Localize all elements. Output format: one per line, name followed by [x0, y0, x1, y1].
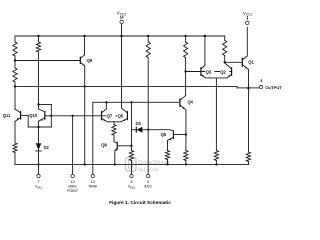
svg-text:Figure 1. Circuit Schematic: Figure 1. Circuit Schematic: [109, 200, 171, 206]
svg-text:Q6: Q6: [118, 114, 124, 119]
svg-text:Q7: Q7: [107, 114, 113, 119]
svg-text:Q11: Q11: [3, 113, 11, 118]
svg-text:8: 8: [131, 180, 133, 184]
svg-text:DataSheet: DataSheet: [138, 160, 170, 167]
svg-text:3: 3: [260, 79, 262, 83]
svg-text:AGC: AGC: [144, 185, 152, 189]
svg-text:D2: D2: [44, 145, 50, 150]
svg-text:12: 12: [91, 180, 95, 184]
svg-text:POINT: POINT: [67, 189, 79, 193]
svg-text:Q4: Q4: [188, 100, 194, 105]
svg-text:BIAS: BIAS: [68, 185, 77, 189]
svg-text:Q2: Q2: [220, 69, 226, 74]
svg-text:TANK: TANK: [88, 185, 98, 189]
svg-text:Q1: Q1: [248, 59, 254, 64]
svg-text:5: 5: [147, 180, 149, 184]
svg-text:7: 7: [38, 180, 40, 184]
svg-text:VCC2: VCC2: [117, 11, 127, 17]
svg-text:D4: D4: [136, 121, 142, 126]
svg-text:VCC1: VCC1: [243, 11, 253, 17]
svg-text:Q5: Q5: [161, 132, 167, 137]
svg-text:Q10: Q10: [29, 113, 37, 118]
svg-text:10: 10: [71, 180, 75, 184]
svg-text:Q8: Q8: [101, 143, 107, 148]
svg-text:Q9: Q9: [87, 58, 93, 63]
svg-text:OUTPUT: OUTPUT: [265, 85, 282, 90]
svg-text:Q3: Q3: [206, 69, 212, 74]
